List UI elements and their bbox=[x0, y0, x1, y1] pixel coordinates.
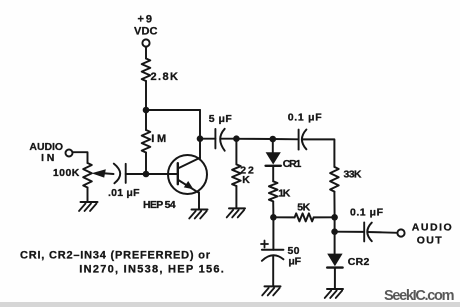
node H junction dot bbox=[331, 228, 338, 235]
svg-text:IN: IN bbox=[41, 152, 54, 164]
transistor Q1 collector wire bbox=[199, 139, 201, 159]
label AUDIO OUT bbox=[412, 221, 452, 246]
wire node F to R 5K bbox=[273, 216, 294, 218]
wire cap to node C bbox=[126, 173, 143, 175]
wire node A right bbox=[146, 109, 200, 111]
node C base junction dot bbox=[143, 171, 150, 178]
ground 22K bbox=[227, 208, 245, 217]
wiper arrow of pot bbox=[100, 173, 114, 174]
capacitor 0.1uF top curved plate bbox=[302, 130, 307, 150]
ground pot bbox=[79, 202, 98, 211]
label +9 VDC bbox=[134, 14, 158, 38]
resistor 2.8K bbox=[142, 59, 151, 82]
svg-text:SeekIC.com: SeekIC.com bbox=[384, 288, 455, 304]
resistor 1K bbox=[269, 181, 278, 201]
wire cap to output terminal bbox=[368, 231, 398, 234]
ground 50uF bbox=[262, 286, 280, 295]
transistor Q1 circle bbox=[168, 155, 207, 194]
svg-text:100K: 100K bbox=[53, 167, 80, 179]
diode CR1 bbox=[266, 152, 281, 166]
capacitor 5uF straight plate bbox=[214, 129, 216, 148]
capacitor .01uF straight plate bbox=[125, 164, 127, 183]
capacitor 50uF curved plate bbox=[262, 255, 284, 261]
wire R 5K to node G bbox=[314, 216, 335, 218]
wire CR1 to R 1K bbox=[272, 167, 274, 182]
capacitor .01uF curved plate bbox=[114, 164, 120, 184]
svg-text:IM: IM bbox=[151, 133, 166, 145]
wire node E to CR1 bbox=[272, 139, 274, 152]
resistor 33K bbox=[330, 167, 339, 192]
svg-text:HEP 54: HEP 54 bbox=[143, 199, 176, 211]
svg-text:+9: +9 bbox=[138, 14, 153, 26]
wire node D to R 22K bbox=[235, 139, 237, 165]
wire node H to CR2 bbox=[334, 232, 336, 254]
wire node D to node E bbox=[236, 138, 272, 140]
svg-text:CRI, CR2–IN34 (PREFERRED) or: CRI, CR2–IN34 (PREFERRED) or bbox=[20, 250, 211, 262]
wire R1M to node C bbox=[145, 153, 147, 175]
capacitor 5uF curved plate bbox=[220, 129, 225, 151]
wire supply to R 2.8K bbox=[145, 47, 147, 59]
wire down to collector node B bbox=[199, 110, 201, 139]
wire R1K to node F bbox=[272, 201, 274, 217]
wire 0.1uF to corner and down to 33K bbox=[302, 139, 334, 167]
label 50 uF bbox=[288, 245, 302, 268]
wire 33K to node G bbox=[333, 192, 335, 218]
ground CR2 bbox=[325, 289, 343, 298]
transistor Q1 emitter stroke with arrow bbox=[178, 180, 198, 192]
node E junction dot bbox=[270, 136, 277, 143]
transistor Q1 base bar bbox=[177, 163, 179, 184]
transistor Q1 collector stroke bbox=[178, 158, 200, 169]
resistor 1M bbox=[142, 130, 151, 153]
terminal AUDIO IN bbox=[66, 150, 73, 157]
capacitor 0.1uF out curved plate bbox=[367, 223, 372, 242]
svg-text:5 μF: 5 μF bbox=[209, 113, 233, 125]
wire node F to 50uF bbox=[272, 217, 274, 250]
wire emitter to ground bbox=[198, 192, 200, 209]
node A junction dot bbox=[143, 107, 150, 114]
wire R22K to ground bbox=[235, 186, 237, 208]
node D junction dot bbox=[233, 135, 240, 142]
svg-text:0.1 μF: 0.1 μF bbox=[350, 207, 384, 219]
svg-text:CR2: CR2 bbox=[348, 256, 370, 268]
svg-text:.01 μF: .01 μF bbox=[108, 187, 140, 199]
capacitor 0.1uF out straight plate bbox=[363, 222, 365, 241]
svg-text:5K: 5K bbox=[297, 202, 310, 214]
bottom scan edge bbox=[0, 302, 460, 307]
wire CR2 to ground bbox=[334, 269, 336, 289]
wire pot to ground bbox=[87, 188, 89, 203]
svg-text:0.1 μF: 0.1 μF bbox=[288, 112, 323, 124]
svg-text:33K: 33K bbox=[344, 169, 362, 181]
capacitor 0.1uF top straight plate bbox=[298, 130, 300, 150]
node B collector junction dot bbox=[197, 135, 204, 142]
svg-text:CR1: CR1 bbox=[283, 158, 302, 170]
diode CR2 bbox=[327, 254, 342, 268]
svg-text:VDC: VDC bbox=[134, 26, 158, 38]
resistor 5K bbox=[295, 213, 314, 221]
wire node C to base bbox=[146, 173, 178, 175]
node G junction dot bbox=[331, 214, 338, 221]
capacitor 50uF plus sign bbox=[261, 241, 268, 248]
wire R2.8K to node A bbox=[145, 81, 147, 110]
potentiometer 100K bbox=[83, 163, 92, 188]
wire node A to R 1M bbox=[145, 110, 147, 130]
wire 5uF to node D bbox=[221, 138, 237, 140]
wire node G to node H bbox=[334, 217, 336, 231]
ground emitter bbox=[189, 210, 207, 219]
wire node E to 0.1uF bbox=[273, 138, 299, 140]
wire node H to output cap bbox=[335, 231, 365, 233]
node F junction dot bbox=[270, 214, 277, 221]
resistor 22K bbox=[232, 164, 241, 186]
label 22K bbox=[240, 165, 254, 187]
svg-text:K: K bbox=[242, 174, 250, 186]
capacitor 50uF straight plate bbox=[262, 249, 284, 251]
svg-text:2.8K: 2.8K bbox=[151, 71, 179, 83]
svg-text:1K: 1K bbox=[278, 188, 290, 200]
wire 50uF to ground bbox=[272, 257, 274, 287]
terminal +9VDC bbox=[142, 39, 149, 46]
wire node B to 5uF bbox=[200, 138, 215, 140]
svg-text:IN270, IN538, HEP 156.: IN270, IN538, HEP 156. bbox=[79, 264, 224, 276]
svg-text:AUDIO: AUDIO bbox=[412, 221, 452, 233]
svg-text:μF: μF bbox=[288, 256, 301, 268]
label AUDIO IN bbox=[29, 141, 63, 164]
wire input terminal to pot bbox=[72, 152, 87, 163]
svg-text:OUT: OUT bbox=[417, 234, 443, 246]
terminal AUDIO OUT bbox=[397, 229, 404, 236]
